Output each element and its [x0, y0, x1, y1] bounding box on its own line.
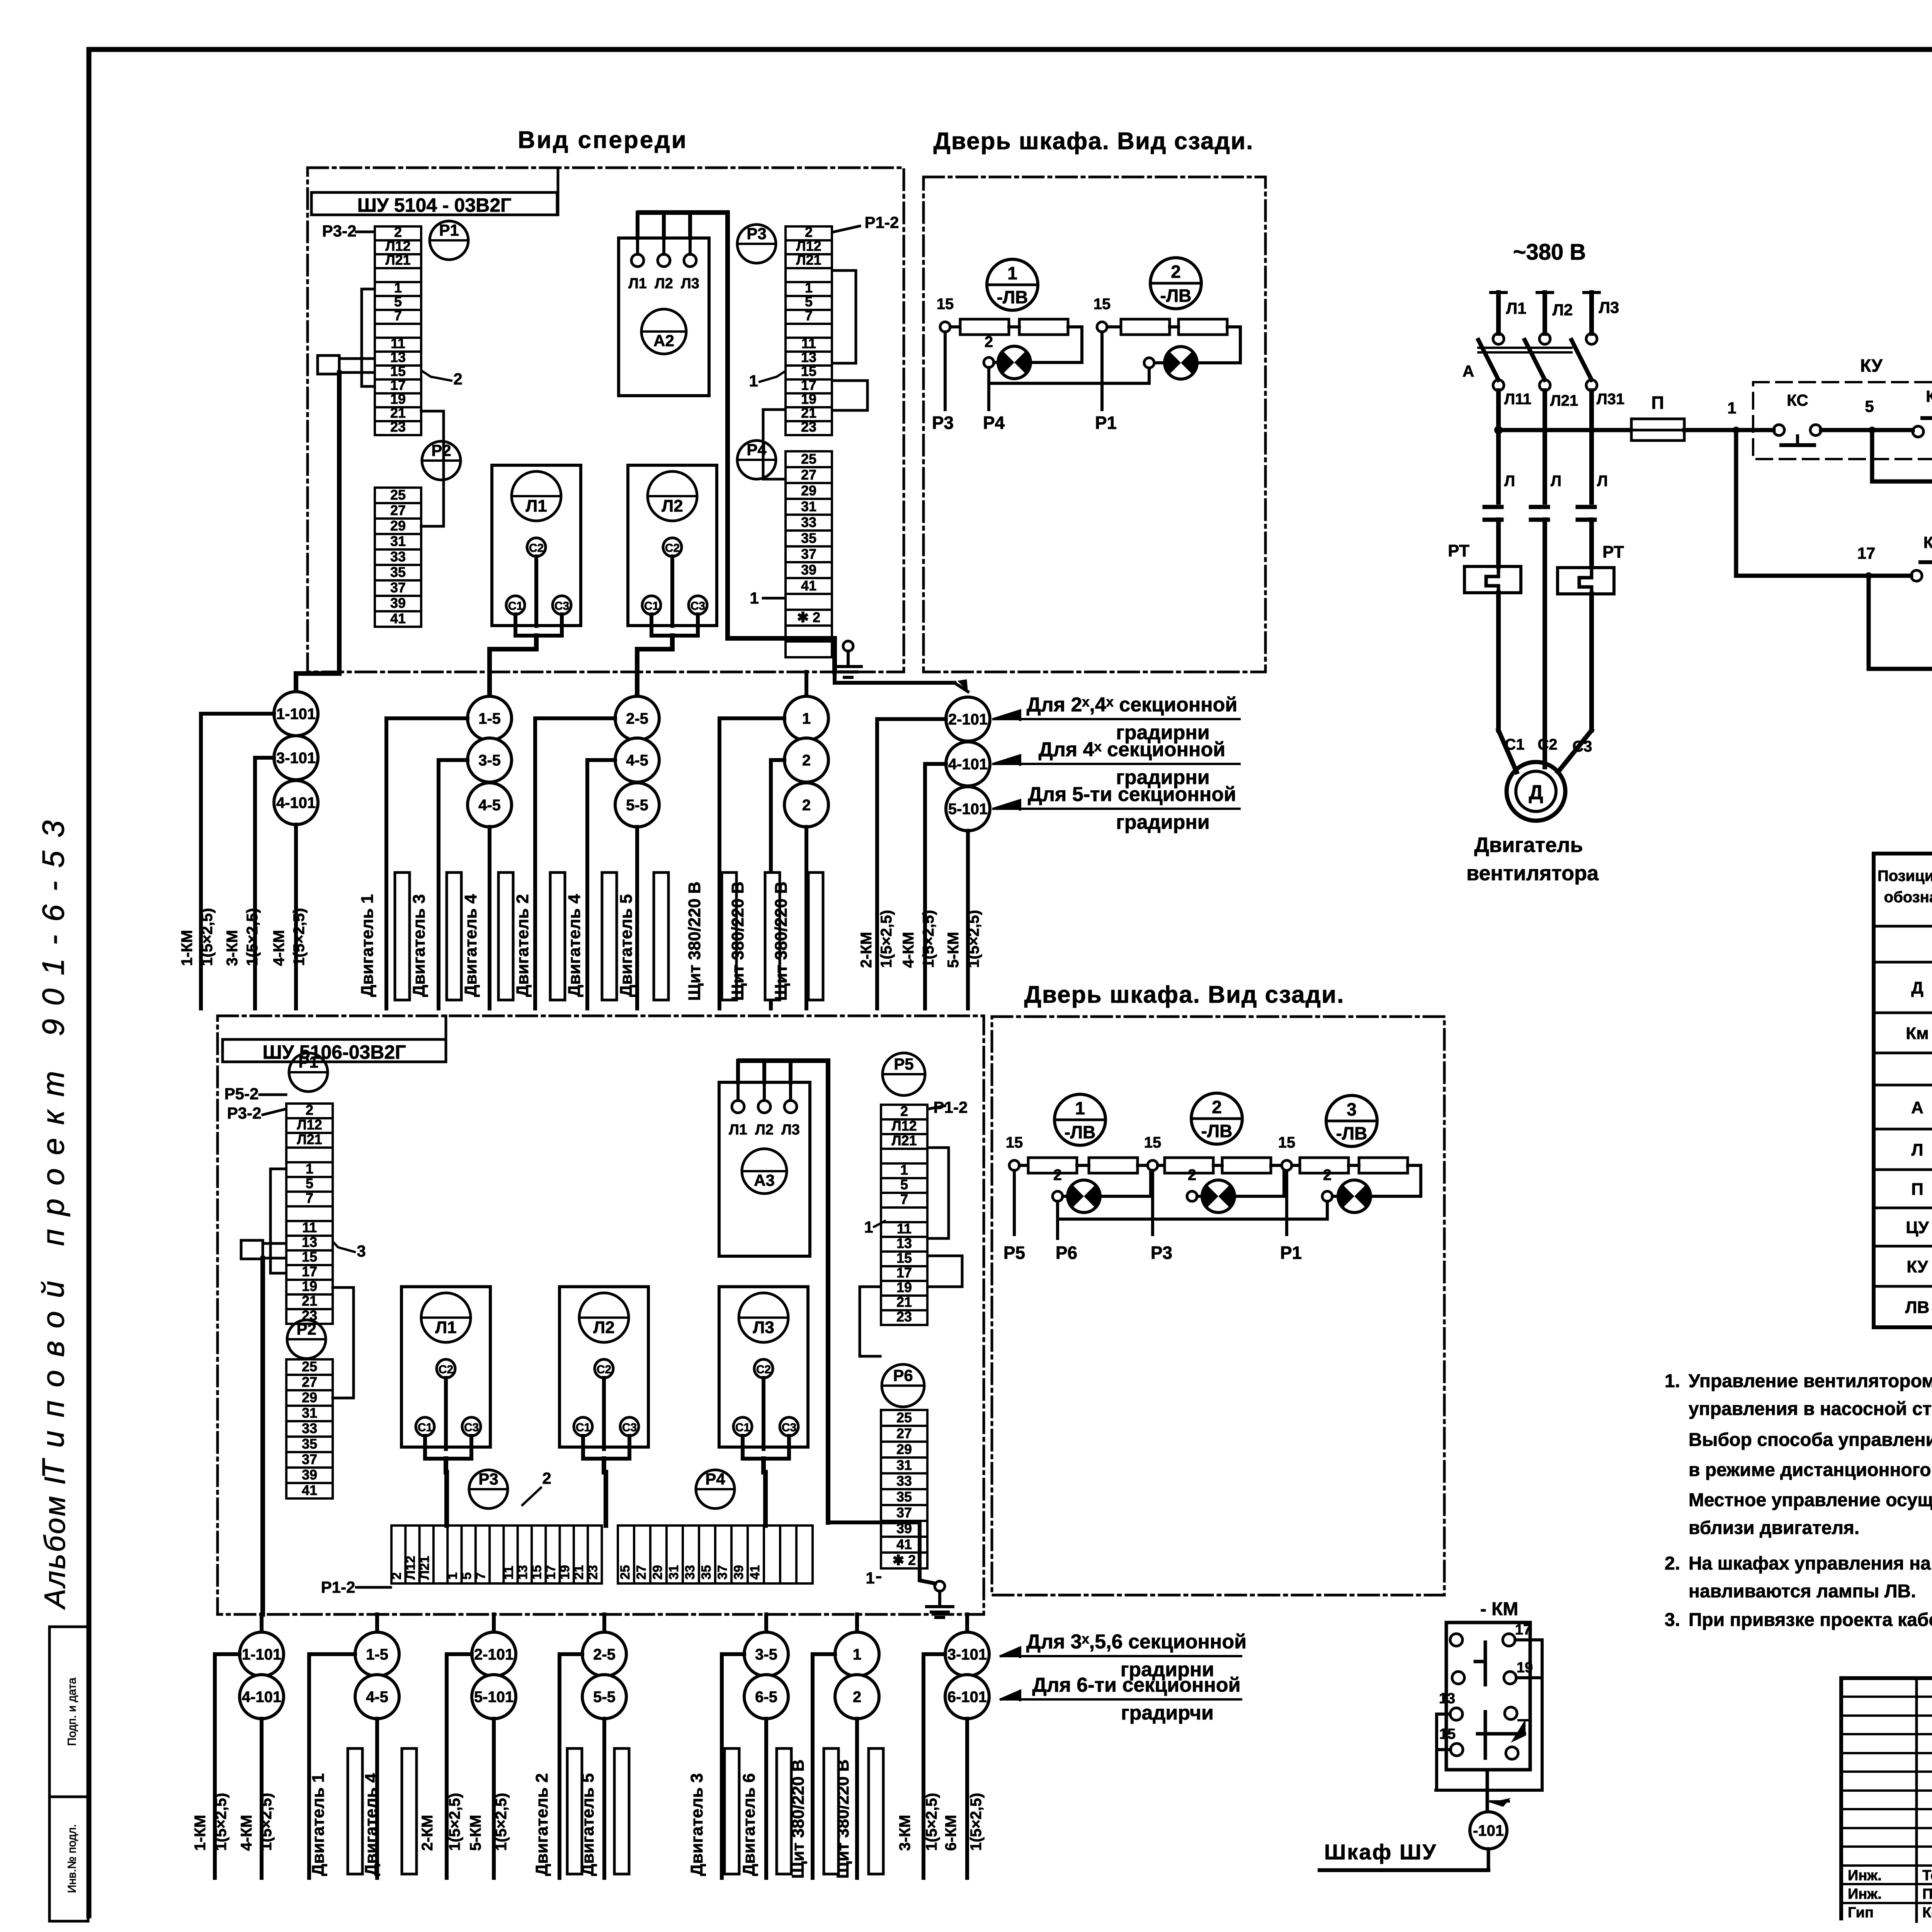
svg-text:Двигатель 3: Двигатель 3 — [687, 1773, 706, 1876]
svg-text:15: 15 — [896, 1250, 912, 1266]
svg-text:1: 1 — [866, 1569, 874, 1587]
svg-text:С3: С3 — [554, 600, 569, 612]
svg-text:1: 1 — [394, 280, 402, 296]
svg-text:21: 21 — [571, 1565, 586, 1580]
svg-text:29: 29 — [801, 483, 816, 498]
svg-text:Типовой проект 901-6-53: Типовой проект 901-6-53 — [36, 807, 70, 1479]
svg-text:Двигатель 1: Двигатель 1 — [358, 894, 377, 997]
svg-text:✱ 2: ✱ 2 — [893, 1552, 916, 1568]
svg-text:29: 29 — [896, 1441, 912, 1457]
svg-text:4-101: 4-101 — [242, 1689, 281, 1706]
svg-text:23: 23 — [801, 419, 816, 435]
svg-text:2.: 2. — [1665, 1553, 1680, 1574]
svg-text:39: 39 — [390, 595, 406, 611]
svg-text:Л1: Л1 — [526, 497, 547, 515]
svg-text:4-КМ: 4-КМ — [270, 930, 287, 966]
svg-text:Д: Д — [1529, 781, 1543, 804]
svg-text:7: 7 — [900, 1191, 908, 1207]
svg-text:в режиме дистанционного уп: в режиме дистанционного управления осуще… — [1689, 1460, 1932, 1480]
svg-text:37: 37 — [302, 1451, 317, 1467]
svg-text:Щит 380/220 В: Щит 380/220 В — [728, 881, 747, 1001]
svg-text:Л: Л — [1912, 1141, 1923, 1160]
svg-text:1: 1 — [900, 1162, 908, 1178]
svg-text:1(5×2,5): 1(5×2,5) — [446, 1793, 463, 1851]
svg-text:Р6: Р6 — [893, 1366, 913, 1384]
svg-text:33: 33 — [801, 514, 816, 530]
svg-text:1-101: 1-101 — [242, 1646, 281, 1663]
svg-text:3-101: 3-101 — [947, 1646, 987, 1663]
svg-text:41: 41 — [896, 1536, 912, 1552]
svg-text:3-101: 3-101 — [276, 750, 316, 767]
svg-text:11: 11 — [801, 335, 816, 351]
svg-text:27: 27 — [302, 1374, 317, 1390]
svg-text:ЦУ: ЦУ — [1906, 1218, 1929, 1237]
svg-text:Вид спереди: Вид спереди — [518, 127, 688, 153]
svg-text:39: 39 — [801, 562, 816, 578]
svg-text:С3: С3 — [1572, 738, 1592, 755]
svg-text:Р3: Р3 — [478, 1470, 498, 1488]
svg-text:А: А — [1911, 1098, 1923, 1117]
svg-text:7: 7 — [306, 1190, 313, 1206]
svg-text:4-5: 4-5 — [626, 752, 648, 769]
svg-text:Двигатель: Двигатель — [1474, 833, 1583, 857]
svg-text:обознач.: обознач. — [1884, 889, 1932, 906]
svg-text:4-101: 4-101 — [276, 794, 316, 811]
svg-text:Позицион.: Позицион. — [1878, 867, 1932, 884]
svg-text:4-КМ: 4-КМ — [238, 1815, 255, 1851]
svg-text:1(5×2,5): 1(5×2,5) — [878, 910, 895, 968]
svg-text:Щит 380/220 В: Щит 380/220 В — [772, 881, 791, 1001]
svg-text:навливаются лампы ЛВ.: навливаются лампы ЛВ. — [1689, 1581, 1916, 1602]
svg-text:17: 17 — [801, 377, 816, 393]
svg-text:1-5: 1-5 — [478, 710, 501, 727]
svg-text:13: 13 — [1439, 1690, 1455, 1707]
svg-text:1: 1 — [864, 1218, 873, 1236]
svg-text:31: 31 — [667, 1565, 681, 1580]
svg-text:1(5×2,5): 1(5×2,5) — [213, 1793, 230, 1851]
svg-text:11: 11 — [502, 1566, 516, 1580]
svg-text:Л12: Л12 — [297, 1117, 322, 1133]
svg-text:Двигатель 4: Двигатель 4 — [461, 894, 480, 997]
svg-text:7: 7 — [473, 1572, 488, 1580]
svg-text:градирни: градирни — [1116, 811, 1209, 833]
svg-text:17: 17 — [390, 377, 406, 393]
svg-text:А2: А2 — [653, 332, 674, 350]
svg-text:Местное управление осуще: Местное управление осуществляется кнопко… — [1689, 1490, 1932, 1510]
svg-text:Л3: Л3 — [753, 1318, 774, 1337]
svg-text:При привязке проекта: При привязке проекта кабели неустанавлив… — [1689, 1610, 1932, 1630]
svg-text:Р5: Р5 — [1003, 1243, 1025, 1263]
svg-text:С1: С1 — [576, 1421, 590, 1434]
svg-text:35: 35 — [302, 1436, 317, 1452]
svg-text:Двигатель 4: Двигатель 4 — [362, 1773, 381, 1876]
svg-text:13: 13 — [896, 1235, 912, 1251]
svg-text:КУ: КУ — [1860, 355, 1883, 376]
svg-text:3-КМ: 3-КМ — [224, 930, 241, 966]
svg-text:Р4: Р4 — [705, 1470, 725, 1488]
svg-text:29: 29 — [302, 1389, 317, 1405]
svg-text:1(5×2,5): 1(5×2,5) — [199, 908, 216, 966]
svg-text:15: 15 — [801, 363, 816, 379]
svg-text:15: 15 — [1094, 296, 1111, 313]
svg-text:Км: Км — [1906, 1024, 1929, 1043]
svg-text:управления в насосной с: управления в насосной станции и местное. — [1689, 1399, 1932, 1419]
svg-text:Р1-2: Р1-2 — [865, 213, 899, 231]
svg-text:2: 2 — [985, 333, 993, 350]
svg-text:23: 23 — [586, 1565, 600, 1580]
svg-text:19: 19 — [801, 391, 816, 407]
svg-text:-ЛВ: -ЛВ — [1336, 1123, 1367, 1143]
svg-text:Л1: Л1 — [435, 1318, 456, 1337]
svg-text:17: 17 — [1857, 544, 1876, 562]
svg-text:5-5: 5-5 — [593, 1689, 616, 1706]
svg-text:Щит 380/220 В: Щит 380/220 В — [685, 881, 704, 1001]
svg-text:П: П — [1911, 1180, 1923, 1199]
svg-text:А: А — [1463, 362, 1474, 380]
svg-text:-ЛВ: -ЛВ — [1160, 286, 1192, 306]
svg-text:2: 2 — [900, 1103, 908, 1119]
svg-text:А3: А3 — [754, 1171, 775, 1189]
svg-text:2-101: 2-101 — [948, 711, 988, 728]
svg-text:градирчи: градирчи — [1121, 1702, 1214, 1724]
svg-text:1-5: 1-5 — [366, 1646, 388, 1663]
svg-text:17: 17 — [544, 1565, 558, 1580]
svg-text:15: 15 — [529, 1565, 544, 1580]
svg-text:23: 23 — [896, 1309, 912, 1325]
svg-text:3: 3 — [357, 1242, 366, 1260]
svg-text:1(5×2,5): 1(5×2,5) — [258, 1793, 275, 1851]
svg-text:35: 35 — [896, 1489, 912, 1505]
svg-text:35: 35 — [801, 530, 816, 546]
svg-text:4-КМ: 4-КМ — [900, 932, 917, 968]
svg-text:вблизи двигателя.: вблизи двигателя. — [1689, 1518, 1859, 1538]
svg-text:С2: С2 — [665, 542, 680, 554]
svg-text:Выбор способа управления: Выбор способа управления осуществляется … — [1689, 1430, 1932, 1450]
svg-text:25: 25 — [801, 451, 816, 467]
svg-text:Р1: Р1 — [439, 221, 459, 239]
svg-text:3-5: 3-5 — [478, 752, 501, 769]
svg-text:ЛВ: ЛВ — [1905, 1298, 1930, 1317]
svg-text:5: 5 — [459, 1572, 474, 1580]
svg-text:1: 1 — [802, 710, 811, 727]
svg-text:Л21: Л21 — [1550, 392, 1578, 409]
svg-text:2-5: 2-5 — [626, 710, 648, 727]
svg-text:5-КМ: 5-КМ — [467, 1815, 484, 1851]
svg-text:15: 15 — [390, 363, 406, 379]
svg-text:РТ: РТ — [1602, 543, 1624, 561]
svg-text:37: 37 — [801, 546, 816, 562]
svg-text:25: 25 — [390, 487, 406, 503]
svg-text:5: 5 — [900, 1177, 908, 1192]
svg-text:2: 2 — [542, 1469, 551, 1487]
svg-text:39: 39 — [302, 1467, 317, 1483]
svg-text:С2: С2 — [597, 1363, 611, 1376]
svg-text:Р1: Р1 — [1280, 1243, 1302, 1263]
svg-text:5-КМ: 5-КМ — [945, 932, 962, 968]
svg-text:Л2: Л2 — [655, 276, 673, 292]
svg-text:Р5: Р5 — [894, 1055, 913, 1073]
svg-text:1: 1 — [1075, 1098, 1085, 1118]
svg-text:27: 27 — [390, 502, 406, 518]
svg-text:23: 23 — [390, 419, 406, 435]
svg-text:2: 2 — [1212, 1097, 1222, 1117]
svg-text:С3: С3 — [782, 1421, 796, 1434]
svg-text:Двигатель 3: Двигатель 3 — [410, 894, 429, 997]
svg-text:2: 2 — [1323, 1167, 1332, 1184]
svg-text:5-5: 5-5 — [626, 797, 648, 814]
svg-text:11: 11 — [302, 1219, 317, 1235]
svg-text:27: 27 — [801, 467, 816, 483]
svg-text:1: 1 — [853, 1646, 861, 1663]
svg-text:Шкаф ШУ: Шкаф ШУ — [1324, 1840, 1437, 1864]
svg-text:Дверь шкафа. Вид сзади.: Дверь шкафа. Вид сзади. — [934, 128, 1254, 155]
svg-text:2-КМ: 2-КМ — [419, 1815, 436, 1851]
svg-text:39: 39 — [731, 1565, 746, 1580]
svg-text:29: 29 — [390, 518, 406, 534]
svg-text:2: 2 — [1188, 1167, 1196, 1184]
svg-text:21: 21 — [801, 405, 816, 421]
svg-text:7: 7 — [805, 308, 813, 323]
svg-text:27: 27 — [634, 1565, 649, 1580]
svg-text:6-5: 6-5 — [755, 1689, 777, 1706]
svg-text:19: 19 — [558, 1565, 572, 1580]
svg-text:П: П — [1651, 393, 1664, 413]
svg-text:Л2: Л2 — [1553, 301, 1573, 319]
svg-text:Для 2ˣ,4ˣ секционной: Для 2ˣ,4ˣ секционной — [1027, 694, 1238, 716]
svg-text:Для 4ˣ секционной: Для 4ˣ секционной — [1039, 738, 1225, 761]
svg-text:Дверь шкафа. Вид сзади.: Дверь шкафа. Вид сзади. — [1024, 981, 1345, 1008]
svg-text:Л21: Л21 — [385, 252, 410, 268]
svg-text:25: 25 — [302, 1359, 317, 1374]
svg-text:Л11: Л11 — [1504, 391, 1531, 408]
svg-text:2: 2 — [394, 224, 402, 240]
svg-text:1(5×2,5): 1(5×2,5) — [291, 908, 308, 966]
svg-text:5: 5 — [1865, 397, 1874, 415]
svg-text:1(5×2,5): 1(5×2,5) — [965, 910, 982, 968]
svg-text:19: 19 — [1517, 1660, 1533, 1676]
svg-text:Инж.: Инж. — [1848, 1867, 1882, 1884]
svg-text:С1: С1 — [418, 1421, 432, 1434]
svg-text:15: 15 — [1439, 1726, 1456, 1742]
svg-text:1-101: 1-101 — [276, 706, 316, 723]
svg-text:1: 1 — [1727, 399, 1736, 417]
svg-text:Р3-2: Р3-2 — [322, 222, 357, 240]
svg-text:- КМ: - КМ — [1480, 1599, 1519, 1619]
svg-text:Поплавская: Поплавская — [1922, 1886, 1932, 1902]
svg-text:Двигатель 2: Двигатель 2 — [513, 894, 532, 997]
svg-text:35: 35 — [699, 1565, 714, 1580]
svg-text:Л2: Л2 — [593, 1318, 614, 1337]
svg-text:Л21: Л21 — [417, 1556, 432, 1580]
svg-text:Кессель: Кессель — [1922, 1905, 1932, 1921]
svg-text:С3: С3 — [622, 1421, 637, 1434]
svg-text:Р6: Р6 — [1056, 1243, 1077, 1263]
svg-text:Р3: Р3 — [747, 224, 766, 243]
svg-text:С1: С1 — [735, 1421, 750, 1434]
svg-text:Л3: Л3 — [781, 1122, 800, 1138]
svg-text:Р3-2: Р3-2 — [227, 1104, 262, 1122]
svg-text:КС: КС — [1787, 391, 1808, 409]
svg-text:31: 31 — [390, 533, 406, 549]
svg-text:1(5×2,5): 1(5×2,5) — [920, 910, 937, 968]
svg-text:Л12: Л12 — [796, 238, 821, 254]
svg-text:2-КМ: 2-КМ — [858, 932, 875, 968]
svg-text:-ЛВ: -ЛВ — [1065, 1122, 1096, 1142]
svg-text:-ЛВ: -ЛВ — [1201, 1121, 1233, 1141]
svg-text:1: 1 — [750, 589, 759, 607]
svg-text:6-101: 6-101 — [947, 1689, 987, 1706]
svg-text:31: 31 — [801, 498, 816, 514]
svg-text:С1: С1 — [1505, 736, 1524, 753]
svg-text:33: 33 — [390, 549, 406, 565]
svg-text:31: 31 — [302, 1405, 317, 1421]
svg-text:-101: -101 — [1473, 1822, 1504, 1839]
svg-text:1-КМ: 1-КМ — [192, 1815, 209, 1851]
svg-text:6-КМ: 6-КМ — [942, 1815, 959, 1851]
svg-text:33: 33 — [896, 1473, 912, 1489]
svg-text:Двигатель 2: Двигатель 2 — [532, 1773, 551, 1876]
svg-text:1(5×2,5): 1(5×2,5) — [493, 1793, 510, 1851]
svg-text:33: 33 — [302, 1420, 317, 1436]
svg-text:5-101: 5-101 — [948, 801, 988, 818]
svg-text:1.: 1. — [1665, 1371, 1680, 1391]
svg-text:1: 1 — [749, 372, 758, 390]
svg-text:Щит 380/220 В: Щит 380/220 В — [789, 1759, 808, 1879]
svg-text:ШУ 5104 - 03В2Г: ШУ 5104 - 03В2Г — [357, 194, 512, 216]
svg-text:Р1: Р1 — [298, 1053, 318, 1071]
svg-text:15: 15 — [1278, 1134, 1296, 1151]
svg-text:КУ: КУ — [1906, 1257, 1928, 1276]
svg-text:2: 2 — [1053, 1167, 1062, 1184]
svg-text:Инж.: Инж. — [1848, 1886, 1882, 1902]
svg-text:~380 В: ~380 В — [1513, 240, 1586, 265]
svg-text:Л2: Л2 — [755, 1122, 774, 1138]
svg-text:4-5: 4-5 — [366, 1689, 388, 1706]
svg-text:Точилина: Точилина — [1922, 1867, 1932, 1884]
svg-text:1(5×2,5): 1(5×2,5) — [923, 1793, 940, 1851]
svg-text:41: 41 — [390, 611, 406, 626]
svg-text:Л21: Л21 — [891, 1133, 917, 1148]
svg-text:Р5-2: Р5-2 — [224, 1085, 259, 1103]
svg-text:2: 2 — [802, 752, 811, 769]
svg-text:33: 33 — [683, 1565, 697, 1580]
svg-text:5: 5 — [394, 294, 402, 310]
svg-text:Л: Л — [1551, 473, 1561, 490]
svg-text:5: 5 — [306, 1175, 313, 1191]
svg-text:С3: С3 — [464, 1421, 479, 1434]
svg-text:Управление вентилятором п: Управление вентилятором предусмотрено ди… — [1689, 1371, 1932, 1391]
svg-text:19: 19 — [302, 1278, 317, 1294]
svg-text:Л: Л — [1504, 473, 1515, 490]
svg-text:5-101: 5-101 — [474, 1689, 514, 1706]
svg-text:2: 2 — [453, 370, 462, 388]
svg-text:Л12: Л12 — [891, 1118, 917, 1134]
svg-text:19: 19 — [896, 1279, 912, 1295]
svg-text:С3: С3 — [690, 600, 705, 612]
svg-text:Для 3ˣ,5,6 секционной: Для 3ˣ,5,6 секционной — [1026, 1631, 1247, 1653]
svg-text:Л21: Л21 — [297, 1131, 322, 1147]
svg-text:13: 13 — [801, 349, 816, 365]
svg-text:37: 37 — [390, 580, 406, 595]
svg-text:35: 35 — [390, 564, 406, 580]
svg-text:Л1: Л1 — [1506, 299, 1527, 317]
svg-text:✱ 2: ✱ 2 — [797, 609, 820, 625]
svg-text:15: 15 — [1144, 1134, 1162, 1151]
svg-text:Л1: Л1 — [628, 276, 647, 292]
svg-text:ШУ 5106-03В2Г: ШУ 5106-03В2Г — [263, 1041, 406, 1063]
svg-text:Л31: Л31 — [1597, 391, 1625, 408]
svg-text:11: 11 — [391, 335, 405, 351]
svg-text:13: 13 — [302, 1234, 317, 1250]
svg-text:7: 7 — [394, 308, 402, 323]
svg-text:Р2: Р2 — [296, 1320, 316, 1338]
svg-text:2: 2 — [805, 224, 813, 240]
svg-text:17: 17 — [302, 1264, 317, 1279]
svg-text:С2: С2 — [529, 542, 544, 554]
svg-text:Для 6-ти секционной: Для 6-ти секционной — [1032, 1674, 1240, 1696]
svg-text:1-КМ: 1-КМ — [179, 930, 196, 966]
svg-text:Л1: Л1 — [729, 1122, 747, 1138]
svg-text:Р3: Р3 — [932, 413, 954, 433]
svg-text:Л2: Л2 — [662, 497, 683, 515]
svg-text:1: 1 — [1007, 263, 1017, 283]
svg-text:15: 15 — [937, 296, 954, 313]
svg-text:15: 15 — [1006, 1134, 1023, 1151]
svg-text:17: 17 — [1515, 1622, 1531, 1638]
svg-text:1: 1 — [306, 1161, 313, 1177]
svg-text:Р1-2: Р1-2 — [321, 1578, 355, 1596]
svg-text:3.: 3. — [1665, 1610, 1680, 1630]
svg-text:КМ: КМ — [1923, 533, 1932, 551]
svg-text:31: 31 — [896, 1457, 912, 1473]
svg-text:13: 13 — [515, 1565, 530, 1580]
svg-text:21: 21 — [896, 1294, 912, 1310]
svg-text:Л3: Л3 — [1599, 298, 1619, 316]
svg-text:С2: С2 — [439, 1363, 453, 1376]
svg-text:25: 25 — [896, 1410, 912, 1425]
svg-text:Л21: Л21 — [796, 252, 821, 268]
svg-text:3-5: 3-5 — [755, 1646, 777, 1663]
svg-text:41: 41 — [801, 578, 816, 594]
svg-text:2: 2 — [853, 1689, 861, 1706]
svg-text:Двигатель 5: Двигатель 5 — [617, 894, 636, 997]
svg-text:КП: КП — [1926, 387, 1932, 405]
svg-text:Двигатель 1: Двигатель 1 — [309, 1773, 328, 1876]
svg-text:17: 17 — [896, 1265, 912, 1281]
svg-text:2: 2 — [802, 797, 811, 814]
svg-text:-ЛВ: -ЛВ — [997, 287, 1028, 307]
svg-text:27: 27 — [896, 1425, 912, 1441]
svg-text:19: 19 — [390, 391, 406, 407]
svg-text:37: 37 — [896, 1505, 912, 1520]
svg-text:1: 1 — [805, 280, 813, 296]
svg-text:1: 1 — [446, 1572, 460, 1580]
svg-text:3: 3 — [1347, 1099, 1357, 1119]
svg-text:Для 5-ти секционной: Для 5-ти секционной — [1028, 783, 1236, 806]
svg-text:5: 5 — [805, 294, 813, 310]
svg-text:37: 37 — [715, 1565, 730, 1580]
svg-text:Л3: Л3 — [681, 276, 699, 292]
svg-text:На шкафах управления на: На шкафах управления на месте монтажа до… — [1689, 1553, 1932, 1574]
svg-text:11: 11 — [897, 1221, 912, 1236]
svg-text:2: 2 — [306, 1102, 313, 1118]
svg-text:2: 2 — [1171, 262, 1181, 282]
svg-text:Инв.№ подл.: Инв.№ подл. — [66, 1824, 78, 1893]
svg-text:С1: С1 — [644, 600, 659, 612]
svg-text:15: 15 — [302, 1249, 317, 1265]
svg-text:2-5: 2-5 — [593, 1646, 616, 1663]
svg-text:13: 13 — [390, 349, 406, 365]
